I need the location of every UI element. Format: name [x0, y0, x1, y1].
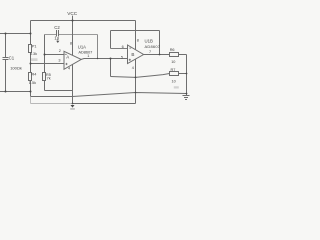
svg-text:2: 2 — [59, 49, 61, 53]
svg-text:1μ: 1μ — [54, 36, 59, 41]
svg-text:6: 6 — [122, 45, 124, 49]
svg-text:10: 10 — [171, 60, 175, 64]
svg-text:B: B — [131, 52, 134, 57]
svg-text:4: 4 — [68, 67, 70, 71]
svg-text:8: 8 — [70, 42, 72, 46]
svg-text:P1: P1 — [32, 45, 37, 49]
svg-text:7: 7 — [149, 50, 151, 54]
svg-text:C1: C1 — [9, 56, 15, 61]
svg-text:AD8607: AD8607 — [145, 44, 161, 49]
svg-text:5: 5 — [121, 55, 123, 59]
svg-text:4: 4 — [132, 66, 134, 70]
svg-text:3.3k: 3.3k — [30, 52, 37, 56]
svg-text:3: 3 — [58, 59, 60, 63]
svg-text:7k: 7k — [47, 77, 51, 81]
svg-text:1.5k: 1.5k — [29, 81, 36, 85]
svg-text:1: 1 — [87, 54, 89, 58]
svg-text:8: 8 — [137, 39, 139, 43]
svg-text:C2: C2 — [54, 25, 60, 30]
svg-text:R7: R7 — [171, 68, 176, 72]
svg-text:VCC: VCC — [67, 11, 78, 16]
svg-text:100Ωk: 100Ωk — [10, 66, 22, 71]
svg-text:AD8607: AD8607 — [78, 49, 93, 54]
svg-text:U1B: U1B — [145, 38, 153, 43]
svg-text:A: A — [66, 55, 69, 60]
svg-text:R6: R6 — [170, 48, 175, 52]
svg-text:R4: R4 — [32, 73, 37, 77]
svg-text:10: 10 — [172, 80, 176, 84]
